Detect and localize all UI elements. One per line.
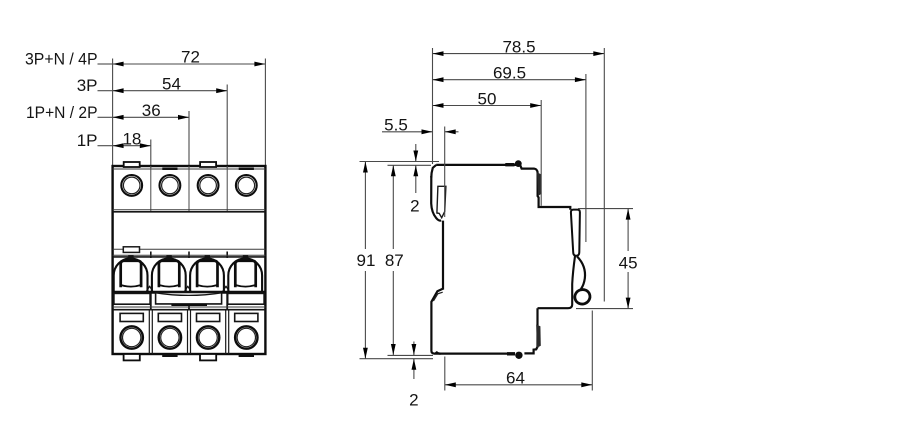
clip slider	[437, 186, 446, 217]
bottom clip notch inner	[433, 292, 442, 301]
dimension 91 lower segment	[364, 271, 366, 359]
svg-text:36: 36	[142, 101, 161, 120]
svg-text:2: 2	[410, 196, 419, 215]
toggle arch pole4	[228, 258, 262, 291]
svg-text:1P+N / 2P: 1P+N / 2P	[26, 103, 98, 122]
dimension 54	[113, 90, 228, 92]
pole divider 1 bottom pair	[148, 310, 150, 354]
lower section line A	[113, 306, 266, 308]
top edge dark segment	[505, 163, 514, 166]
svg-text:18: 18	[122, 129, 141, 148]
toggle section bottom thick line	[113, 291, 266, 294]
central label plate poles 2-3	[156, 292, 222, 304]
extension line front right	[264, 59, 266, 167]
svg-text:3P+N / 4P: 3P+N / 4P	[25, 50, 98, 69]
dimension 87 lower segment	[392, 271, 394, 355]
extension line front left	[112, 59, 114, 167]
face plate pole1	[114, 293, 150, 304]
bottom window pole4	[235, 313, 258, 321]
toggle handle nub pole1	[128, 255, 133, 259]
extension line 64 left	[444, 357, 446, 391]
bottom tab pole1	[124, 354, 140, 360]
side bottom-left DIN clip	[431, 289, 443, 354]
svg-text:2: 2	[409, 391, 418, 410]
toggle section top line B	[113, 256, 266, 258]
top terminal screw pole3	[198, 175, 219, 196]
dimension 2 top lower arrow	[415, 165, 417, 193]
dimension 2 bottom lower arrow	[413, 359, 415, 379]
svg-text:54: 54	[162, 74, 181, 93]
dimension 18	[113, 145, 151, 147]
dimension 5.5 right arrow	[445, 131, 459, 133]
toggle handle pole3	[197, 261, 217, 287]
extension line clip top (91)	[360, 161, 440, 163]
toggle arch pole3	[190, 258, 224, 291]
bottom terminal screw pole1	[121, 326, 143, 348]
dimension 72	[113, 63, 266, 65]
toggle section top line A	[113, 254, 266, 256]
dimension 5.5 left arrow	[382, 131, 433, 133]
toggle handle nub pole4	[243, 255, 248, 259]
side top-left DIN clip	[431, 176, 441, 221]
bottom bar pole2	[162, 354, 177, 357]
pole divider 2 upper	[188, 166, 190, 212]
top clip tab pole1	[124, 162, 140, 167]
central plate top curve	[156, 293, 222, 296]
top clip bar pole4	[239, 168, 254, 170]
bottom bar pole4	[239, 354, 254, 357]
side view body outline	[431, 165, 570, 354]
toggle arch pole1	[114, 258, 148, 291]
arch joint mark	[185, 286, 189, 291]
pole divider 2 mid	[188, 252, 190, 259]
toggle handle nub pole3	[205, 255, 210, 259]
top vent dark quad	[537, 172, 542, 196]
bottom terminal screw pole4	[235, 326, 257, 348]
bottom terminal screw pole3	[197, 326, 219, 348]
pole divider 3 upper	[226, 166, 228, 212]
extension line clip bottom (91)	[360, 358, 434, 360]
pole divider 1 mid	[150, 252, 152, 259]
top knob button	[515, 160, 522, 167]
pole divider 1 upper	[150, 166, 152, 212]
svg-text:78.5: 78.5	[502, 38, 535, 57]
pole divider 3 mid	[226, 252, 228, 259]
leader line 2P	[98, 116, 114, 118]
pole divider 2 bottom pair	[187, 310, 189, 354]
bottom vent dark quad	[536, 325, 541, 348]
sealing ring	[573, 288, 592, 306]
dimension 45 lower segment	[627, 272, 629, 309]
toggle handle bottom pole3	[197, 285, 217, 287]
dimension 69.5	[433, 79, 586, 81]
toggle handle nub pole2	[166, 255, 171, 259]
terminal section bottom line	[113, 211, 266, 213]
svg-text:50: 50	[478, 89, 497, 108]
pole divider 2 lower	[188, 292, 190, 310]
extension line 54	[226, 85, 228, 169]
dimension 2 top upper arrow	[415, 144, 417, 162]
dimension 36	[113, 116, 189, 118]
leader line 1P	[98, 145, 114, 147]
arch joint mark	[223, 286, 227, 291]
top terminal screw pole2	[160, 175, 181, 196]
pole divider 3 lower	[226, 292, 228, 310]
dimension 64	[445, 384, 593, 386]
extension line 45 top	[578, 208, 633, 210]
bottom tab pole3	[200, 354, 216, 360]
sealing loop strand left	[538, 256, 576, 308]
arch joint mark	[146, 286, 150, 291]
leader line 3P	[98, 90, 114, 92]
dimension 2 bottom upper arrow	[413, 342, 415, 356]
dimension 91 upper segment	[364, 162, 366, 250]
extension line 18	[150, 140, 152, 169]
toggle handle pole1	[121, 261, 141, 287]
bottom window pole1	[120, 313, 143, 321]
extension line 64 right	[591, 311, 593, 391]
top terminal screw pole4	[236, 175, 257, 196]
toggle handle bottom pole2	[159, 285, 179, 287]
pole divider 1 lower	[150, 292, 152, 310]
label window pole1	[123, 247, 139, 253]
toggle handle bottom pole1	[121, 285, 141, 287]
toggle arch pole2	[152, 258, 186, 291]
toggle handle pole2	[159, 261, 179, 287]
dimension 45 upper segment	[627, 209, 629, 251]
extension line body top (87)	[388, 164, 432, 166]
face plate pole4	[228, 293, 264, 304]
extension line 69.5	[585, 74, 587, 242]
svg-text:64: 64	[506, 369, 525, 388]
svg-text:91: 91	[357, 251, 376, 270]
sealing loop strand right	[577, 256, 585, 289]
bottom window pole3	[197, 313, 220, 321]
svg-text:3P: 3P	[77, 76, 98, 95]
bottom window pole2	[158, 313, 181, 321]
bottom terminal screw pole2	[159, 326, 181, 348]
toggle handle pole4	[235, 261, 255, 287]
side main left edge	[442, 221, 444, 290]
dimension 87 upper segment	[392, 165, 394, 249]
breaker front view body outline	[113, 166, 266, 354]
svg-text:1P: 1P	[77, 131, 98, 150]
extension line 50	[540, 100, 542, 206]
extension line 5.5 right	[444, 127, 446, 218]
dimension 50	[433, 105, 542, 107]
top terminal screw pole1	[121, 175, 142, 196]
toggle lever side	[571, 210, 580, 256]
svg-text:87: 87	[385, 251, 404, 270]
top clip tab pole3	[200, 162, 216, 167]
top clip bar pole2	[162, 168, 177, 170]
front top inner line	[113, 168, 266, 170]
bottom knob button	[515, 352, 522, 359]
terminal section bottom thin line	[113, 209, 266, 211]
extension line 36	[188, 111, 190, 168]
dimension 78.5	[433, 53, 605, 55]
extension line 45 bottom	[576, 308, 633, 310]
extension line side left top	[432, 48, 434, 164]
extension line body bottom (87)	[388, 354, 434, 356]
extension line 78.5	[603, 48, 605, 302]
svg-text:72: 72	[181, 48, 200, 67]
toggle handle bottom pole4	[235, 285, 255, 287]
svg-text:45: 45	[619, 254, 638, 273]
upper face line	[113, 248, 266, 250]
svg-text:69.5: 69.5	[493, 64, 526, 83]
pole divider 3 bottom pair	[225, 310, 227, 354]
central plate bottom accent	[171, 304, 207, 306]
lower section line B	[113, 309, 266, 311]
leader line 4P	[98, 63, 114, 65]
bottom edge dark segment	[507, 352, 515, 355]
